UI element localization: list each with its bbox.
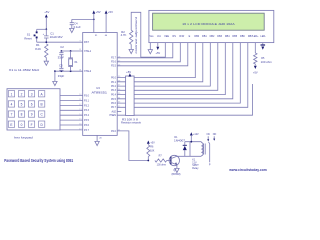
switch S1 [24, 29, 37, 42]
svg-text:P3.7: P3.7 [84, 129, 90, 132]
ground MCU pin 20 [95, 135, 103, 145]
wire XTAL1 row [61, 50, 82, 52]
svg-text:RS: RS [173, 35, 177, 38]
svg-text:U3: U3 [96, 86, 100, 90]
svg-text:4: 4 [11, 103, 13, 107]
svg-text:X1 is 11.0592 MHz: X1 is 11.0592 MHz [9, 68, 40, 72]
svg-text:+5V: +5V [253, 70, 258, 74]
wire P2.6 to LCD [111, 43, 180, 64]
svg-text:P3.0: P3.0 [84, 95, 90, 98]
svg-text:LED-: LED- [260, 35, 266, 38]
svg-text:R/W: R/W [179, 35, 184, 38]
wire P0.5 to LCD DB5 [111, 43, 233, 101]
svg-text:C2: C2 [60, 45, 64, 49]
svg-text:100 ohm: 100 ohm [261, 61, 272, 64]
svg-text:2: 2 [21, 92, 23, 96]
potentiometer R2 4.7K contrast [121, 17, 138, 54]
relay pole P [209, 142, 210, 162]
svg-text:16 x 2 LCD MODULE JHD 162A: 16 x 2 LCD MODULE JHD 162A [182, 22, 235, 26]
svg-text:C3: C3 [59, 63, 63, 67]
wire coil top rail [185, 141, 202, 143]
wire top rail S1-C1 [37, 28, 47, 30]
power +5V pin31 [92, 10, 100, 32]
resistor R6 10K [147, 145, 155, 161]
wire VEE to pot [131, 12, 165, 57]
svg-text:VEE: VEE [164, 35, 169, 38]
svg-text:P2.5: P2.5 [111, 65, 117, 68]
svg-text:1: 1 [11, 92, 13, 96]
svg-text:+5V: +5V [155, 51, 160, 55]
svg-text:DB1: DB1 [202, 35, 207, 38]
svg-text:DB3: DB3 [217, 35, 222, 38]
svg-text:10K: 10K [150, 149, 155, 152]
svg-text:+5V: +5V [96, 10, 101, 14]
wire P2.7 to LCD [111, 43, 173, 60]
svg-text:P3.6: P3.6 [84, 124, 90, 127]
wire P0.6 to LCD DB6 [111, 43, 240, 105]
svg-text:X1: X1 [74, 60, 78, 64]
svg-text:Resistor network: Resistor network [121, 121, 142, 125]
keypad hex 4x4 [7, 89, 60, 130]
svg-text:ALE: ALE [111, 111, 116, 114]
crystal X1 [68, 51, 78, 71]
capacitor C3 33pF [58, 63, 65, 78]
svg-text:B: B [41, 103, 43, 107]
svg-text:33pF: 33pF [58, 74, 65, 78]
svg-text:E: E [10, 123, 12, 127]
wire C2-C3 [60, 55, 62, 69]
svg-text:PSEN: PSEN [109, 114, 116, 117]
wire P0.7 to LCD DB7 [111, 43, 248, 110]
svg-text:(BC548): (BC548) [172, 173, 181, 176]
ground crystal net [53, 71, 57, 85]
svg-text:+5V: +5V [150, 141, 155, 144]
svg-text:Password Based Security System: Password Based Security System using 805… [4, 158, 73, 163]
power +5V pin40 [105, 10, 113, 32]
svg-text:contrast adjustment: contrast adjustment [134, 17, 138, 54]
svg-text:hex keypad: hex keypad [14, 135, 33, 139]
transistor Q1 BC548 [169, 155, 181, 176]
svg-text:P0.6: P0.6 [111, 102, 117, 105]
svg-text:DB2: DB2 [210, 35, 215, 38]
svg-text:DB0: DB0 [194, 35, 199, 38]
wire keypad C4 to P3.7 [56, 128, 90, 132]
power +12V [190, 132, 199, 142]
svg-text:1N4007: 1N4007 [174, 139, 186, 142]
svg-text:F: F [31, 123, 33, 127]
svg-text:100 ohm: 100 ohm [157, 164, 166, 167]
svg-text:NC: NC [207, 133, 211, 136]
wire P2.0 to driver [111, 130, 148, 161]
ground under C4 [70, 28, 74, 32]
svg-text:XTAL2: XTAL2 [84, 70, 92, 73]
svg-text:XTAL1: XTAL1 [84, 50, 92, 53]
svg-text:8.2K: 8.2K [35, 47, 41, 51]
capacitor C1 [43, 29, 63, 42]
svg-text:+12V: +12V [193, 133, 199, 136]
svg-text:Relay: Relay [192, 167, 199, 170]
svg-text:P0.3: P0.3 [111, 89, 117, 92]
svg-text:9: 9 [31, 113, 33, 117]
svg-text:6: 6 [31, 103, 33, 107]
resistor network R3 10K x 8 [121, 70, 142, 125]
resistor R5 100 ohm backlight [253, 43, 272, 75]
svg-text:7: 7 [11, 113, 13, 117]
ground emitter [175, 168, 179, 172]
capacitor C4 0.1uF [70, 19, 81, 29]
relay contacts NC NO [207, 133, 217, 167]
relay K1 coil [190, 142, 205, 170]
svg-text:+5V: +5V [108, 10, 113, 14]
svg-text:10uF/16V: 10uF/16V [50, 35, 63, 39]
svg-text:P0.0: P0.0 [111, 77, 117, 80]
svg-text:P2.6: P2.6 [111, 61, 117, 64]
wire keypad R3 to P3.2 [56, 103, 90, 107]
diode D1 1N4007 [174, 136, 187, 156]
svg-text:8: 8 [21, 113, 23, 117]
svg-text:P3.3: P3.3 [84, 109, 90, 112]
svg-text:P0.5: P0.5 [111, 98, 117, 101]
wire P0.0 to LCD DB0 [111, 43, 195, 80]
svg-text:5: 5 [21, 103, 23, 107]
wire XTAL2 row [55, 70, 83, 72]
wire keypad C2 to P3.5 [56, 118, 90, 122]
svg-text:RST: RST [84, 41, 89, 44]
svg-text:LED+: LED+ [252, 35, 259, 38]
resistor R1 8.2K [35, 43, 48, 61]
wire keypad R1 to P3.0 [56, 93, 90, 97]
wire P0.2 to LCD DB2 [111, 43, 210, 88]
wire keypad C1 to P3.4 [56, 113, 90, 117]
svg-text:P2.7: P2.7 [111, 57, 117, 60]
svg-text:P3.4: P3.4 [84, 114, 90, 117]
svg-text:DB5: DB5 [232, 35, 237, 38]
power +5V pullup [147, 141, 155, 145]
svg-text:P2.0: P2.0 [111, 130, 117, 133]
wire P0.1 to LCD DB1 [111, 43, 203, 84]
wire keypad C3 to P3.6 [56, 123, 90, 127]
wire collector rail [177, 155, 202, 157]
svg-text:P3.5: P3.5 [84, 119, 90, 122]
svg-text:0.1uF: 0.1uF [74, 25, 81, 29]
svg-text:3: 3 [31, 92, 33, 96]
svg-text:P0.2: P0.2 [111, 85, 117, 88]
svg-text:P0.1: P0.1 [111, 81, 117, 84]
svg-text:www.circuitstoday.com: www.circuitstoday.com [228, 168, 267, 172]
svg-text:P3.2: P3.2 [84, 104, 90, 107]
svg-text:4.7K: 4.7K [121, 33, 127, 37]
ground LED- [261, 43, 266, 50]
svg-text:Reset: Reset [24, 36, 32, 40]
resistor R7 100 ohm base [155, 154, 171, 166]
svg-text:DB4: DB4 [225, 35, 230, 38]
power +5V LCD Vcc [155, 43, 160, 55]
ground LCD Vss [148, 43, 152, 54]
wire PSEN row (outer) [117, 84, 252, 115]
svg-text:DB6: DB6 [240, 35, 245, 38]
wire RST row [37, 41, 83, 43]
svg-text:+5V: +5V [126, 70, 131, 74]
capacitor C2 33pF [58, 45, 65, 60]
LCD module JHD162A [149, 10, 274, 42]
power +5V reset rail [44, 10, 49, 30]
svg-text:P0.7: P0.7 [111, 106, 117, 109]
svg-text:+5V: +5V [44, 10, 49, 14]
wire C4 rail [72, 18, 94, 20]
microcontroller U3 AT89S51 [83, 33, 118, 136]
ground under R1 [44, 61, 48, 65]
svg-text:P0.4: P0.4 [111, 94, 117, 97]
wire keypad R4 to P3.3 [56, 108, 90, 112]
svg-text:NO: NO [213, 133, 217, 136]
wire P2.5 to LCD [111, 43, 188, 68]
wire P0.3 to LCD DB3 [111, 43, 218, 93]
svg-text:AT89S51: AT89S51 [92, 90, 108, 94]
wire P0.4 to LCD DB4 [111, 43, 225, 97]
svg-text:33pF: 33pF [58, 56, 65, 60]
svg-text:0: 0 [21, 123, 23, 127]
wire keypad R2 to P3.1 [56, 98, 90, 102]
svg-text:P3.1: P3.1 [84, 99, 90, 102]
